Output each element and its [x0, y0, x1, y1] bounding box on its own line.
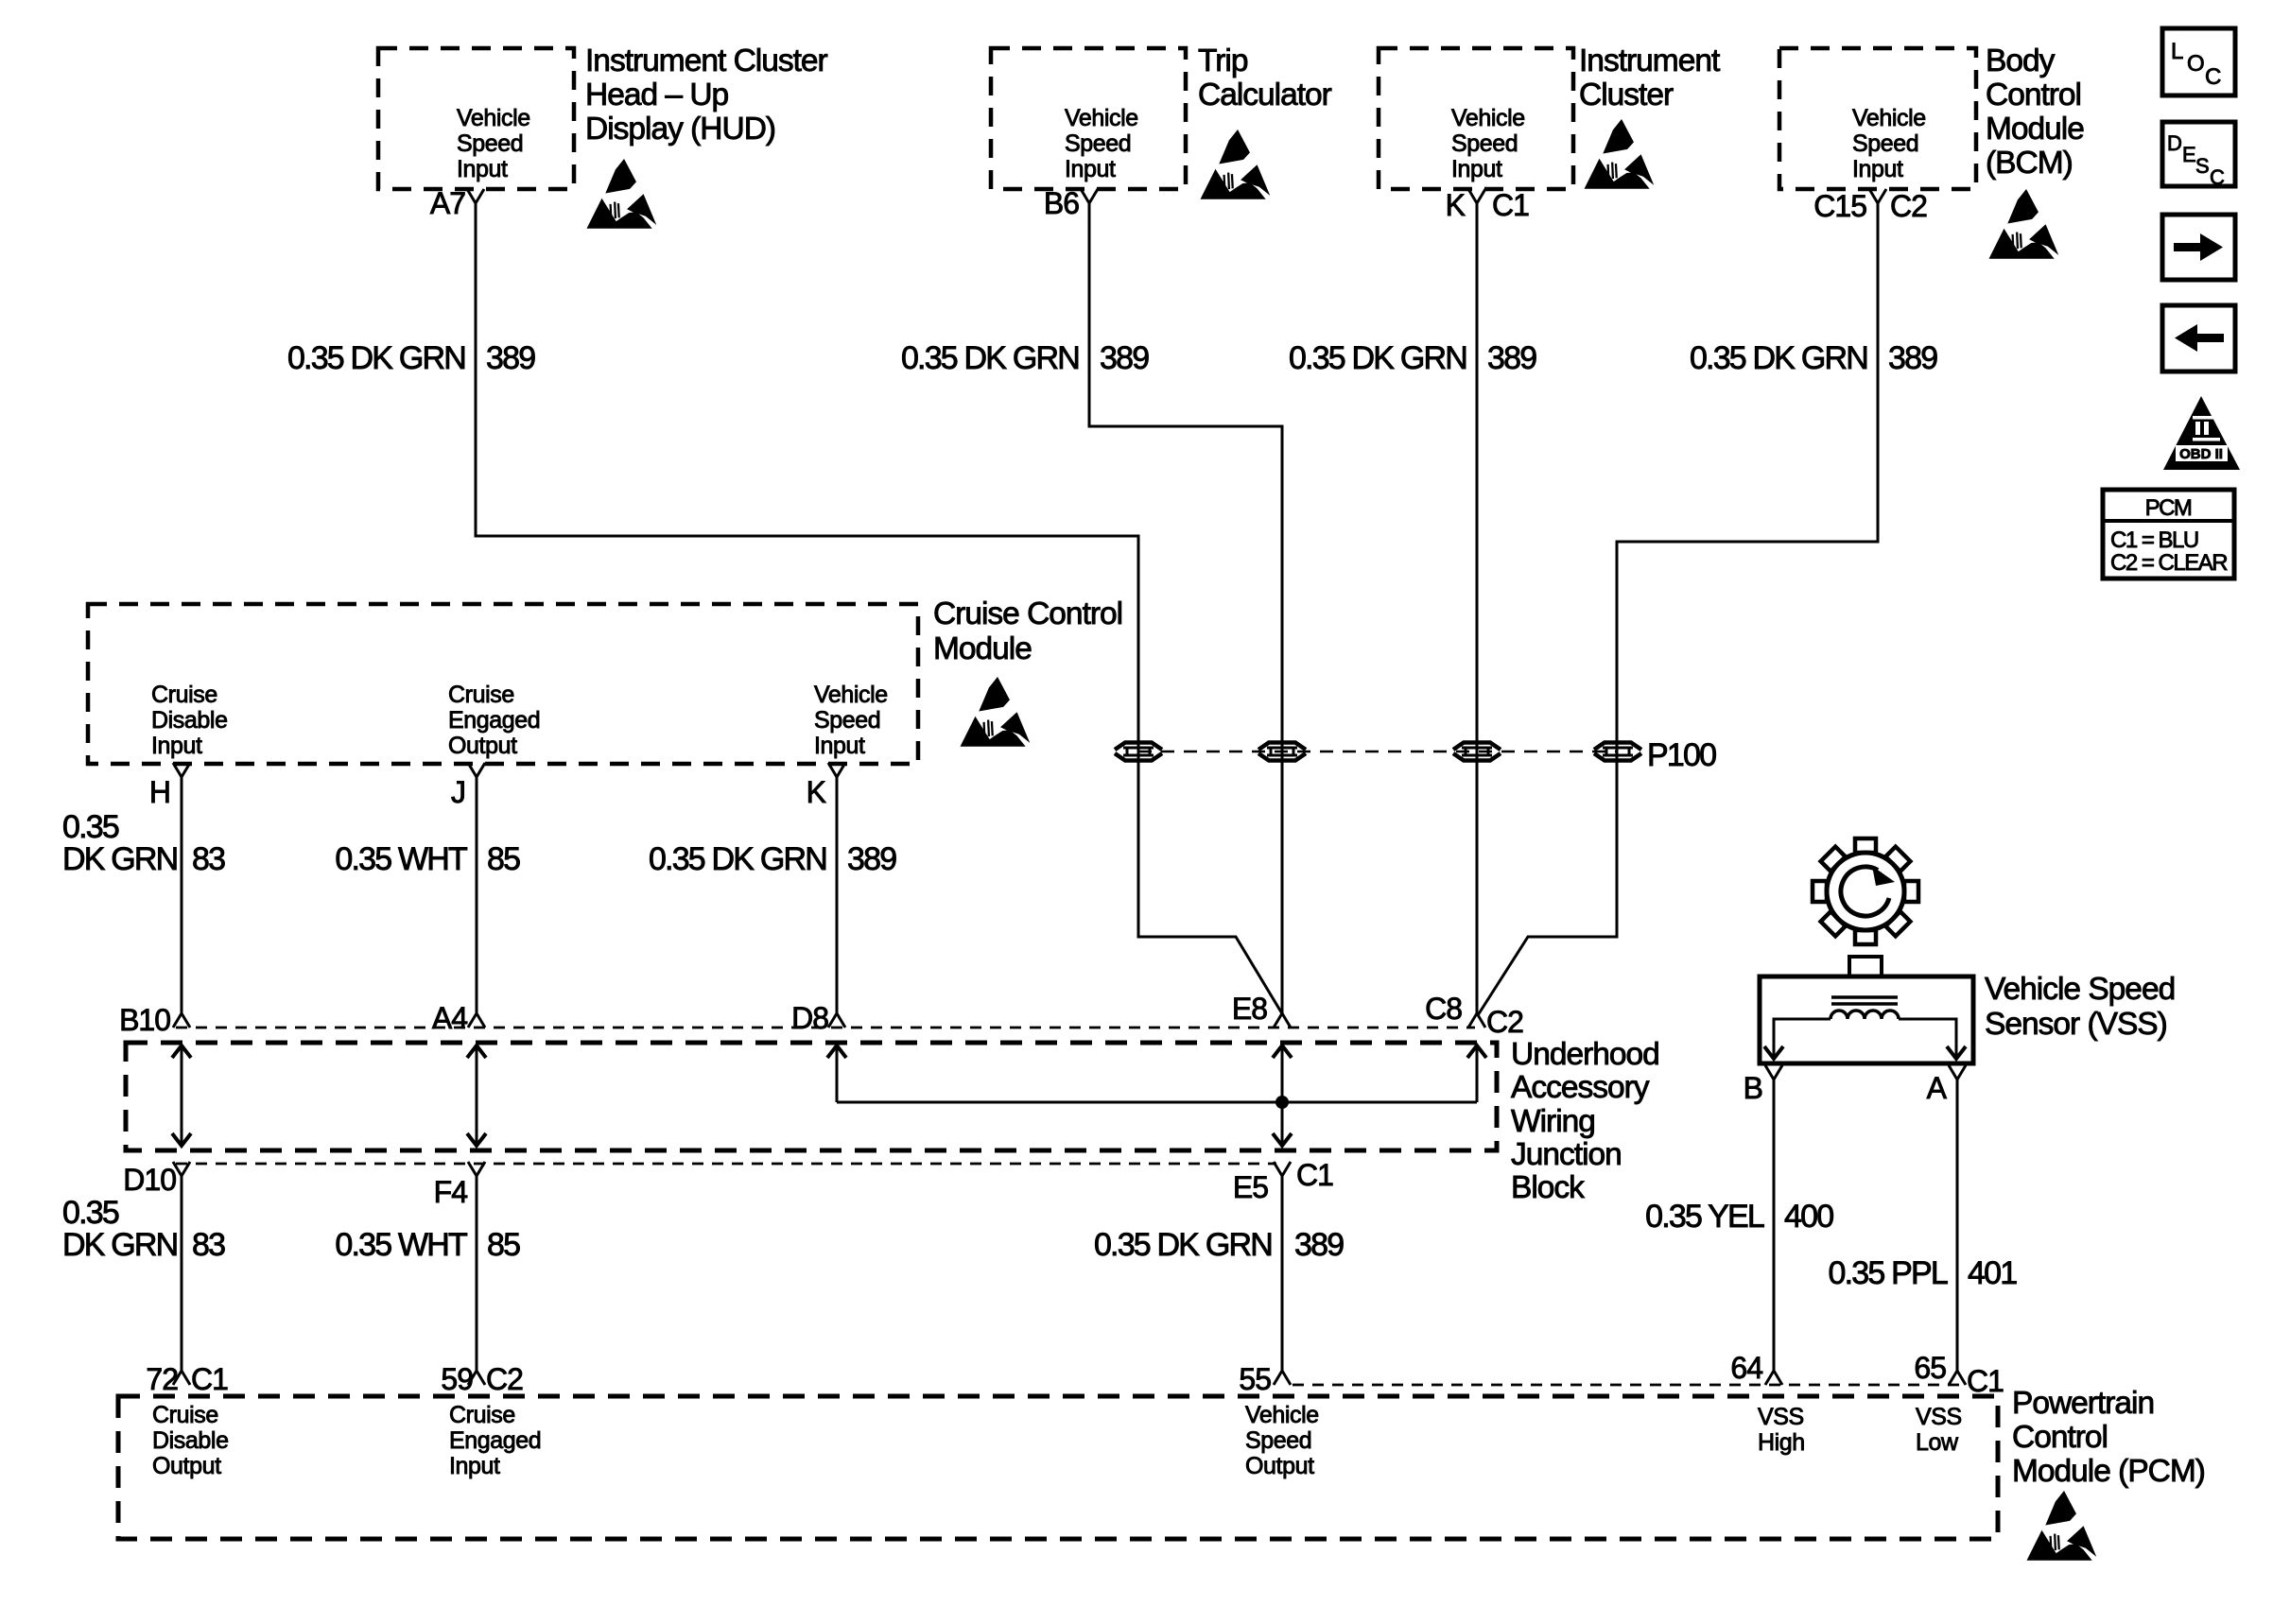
svg-text:0.35 YEL: 0.35 YEL — [1645, 1199, 1764, 1235]
junction block bottom connector row (dashed) — [176, 1163, 1276, 1166]
junction block internal path A4-F4 (double arrow) — [467, 1045, 486, 1058]
svg-text:Vehicle: Vehicle — [1451, 105, 1525, 131]
svg-text:C1: C1 — [1492, 188, 1529, 222]
svg-text:DK GRN: DK GRN — [62, 841, 177, 877]
svg-text:Control: Control — [2012, 1420, 2108, 1455]
wire: HUD A7 to junction E8 (0.35 DK GRN 389) — [476, 203, 1283, 1015]
svg-text:0.35: 0.35 — [62, 809, 119, 845]
junction node dot — [1275, 1096, 1289, 1109]
svg-text:Wiring: Wiring — [1511, 1104, 1595, 1139]
svg-text:83: 83 — [192, 841, 225, 877]
svg-text:P100: P100 — [1647, 737, 1716, 773]
svg-text:0.35 DK GRN: 0.35 DK GRN — [901, 340, 1079, 376]
svg-text:Powertrain: Powertrain — [2012, 1386, 2154, 1421]
junction block internal bus wire — [837, 1101, 1477, 1104]
svg-text:E5: E5 — [1233, 1170, 1268, 1204]
svg-text:0.35 PPL: 0.35 PPL — [1829, 1255, 1948, 1291]
label: Powertrain Control Module (PCM) — [2012, 1386, 2205, 1489]
svg-text:Input: Input — [449, 1453, 500, 1479]
svg-text:401: 401 — [1968, 1255, 2017, 1291]
legend icon: OBD II triangle — [2163, 396, 2240, 470]
junction block internal path B10-D10 (double arrow) — [172, 1045, 191, 1058]
svg-text:C8: C8 — [1425, 992, 1462, 1026]
svg-text:0.35 DK GRN: 0.35 DK GRN — [1289, 340, 1466, 376]
svg-text:VSS: VSS — [1916, 1404, 1962, 1430]
svg-text:Block: Block — [1511, 1170, 1585, 1205]
label: Vehicle Speed Sensor (VSS) — [1985, 972, 2175, 1042]
module box: Powertrain Control Module (PCM) — [118, 1396, 1998, 1539]
svg-text:389: 389 — [1888, 340, 1937, 376]
VSS internal leads — [1774, 1019, 1831, 1059]
svg-text:A: A — [1927, 1071, 1948, 1105]
module box: Body Control Module (BCM) — [1779, 48, 1976, 189]
svg-text:A4: A4 — [432, 1001, 467, 1035]
svg-text:B6: B6 — [1044, 186, 1079, 220]
VSS coil — [1831, 1011, 1899, 1019]
svg-text:389: 389 — [1100, 340, 1149, 376]
wire: E5 to PCM 55 (0.35 DK GRN 389) — [1281, 1176, 1284, 1373]
svg-text:0.35 DK GRN: 0.35 DK GRN — [649, 841, 826, 877]
svg-text:Display (HUD): Display (HUD) — [585, 112, 775, 147]
component: Underhood Accessory Wiring Junction Block — [126, 1043, 1497, 1150]
svg-text:Cruise Control: Cruise Control — [933, 596, 1122, 631]
legend icon: LOC box — [2162, 28, 2235, 95]
svg-text:PCM: PCM — [2145, 495, 2192, 521]
svg-text:E8: E8 — [1232, 992, 1267, 1026]
svg-text:Trip: Trip — [1198, 43, 1248, 78]
svg-text:Input: Input — [457, 156, 508, 182]
svg-text:0.35 WHT: 0.35 WHT — [335, 841, 467, 877]
svg-text:72: 72 — [146, 1362, 178, 1396]
junction block internal path D8 down to bus — [827, 1045, 846, 1058]
svg-text:65: 65 — [1914, 1351, 1946, 1385]
svg-text:83: 83 — [192, 1227, 225, 1263]
svg-text:High: High — [1758, 1429, 1805, 1456]
wire: F4 to PCM 59 (0.35 WHT 85) — [476, 1176, 478, 1373]
svg-text:Input: Input — [1852, 156, 1903, 182]
svg-text:C: C — [2210, 165, 2225, 189]
svg-text:Module: Module — [1986, 112, 2084, 147]
svg-text:C2 = CLEAR: C2 = CLEAR — [2110, 550, 2228, 576]
label: Underhood Accessory Wiring Junction Block — [1511, 1037, 1659, 1205]
svg-text:85: 85 — [487, 841, 520, 877]
svg-text:389: 389 — [1294, 1227, 1344, 1263]
label: Body Control Module (BCM) — [1986, 43, 2084, 181]
wire: Instrument Cluster K to junction C8 (0.35 DK GRN 389) — [1476, 203, 1479, 1015]
svg-text:Vehicle: Vehicle — [1852, 105, 1926, 131]
svg-text:Speed: Speed — [1852, 130, 1918, 157]
svg-text:Underhood: Underhood — [1511, 1037, 1659, 1072]
svg-text:Speed: Speed — [457, 130, 523, 157]
svg-text:Engaged: Engaged — [448, 707, 540, 734]
wire: CCM K to junction D8 (0.35 DK GRN 389) — [836, 777, 839, 1015]
svg-text:C2: C2 — [1486, 1005, 1523, 1039]
svg-text:Control: Control — [1986, 78, 2081, 112]
svg-text:Cruise: Cruise — [449, 1402, 515, 1428]
svg-text:Disable: Disable — [152, 1427, 229, 1454]
svg-text:0.35 DK GRN: 0.35 DK GRN — [1094, 1227, 1272, 1263]
ESD symbol (PCM) — [2027, 1491, 2097, 1561]
svg-text:0.35: 0.35 — [62, 1195, 119, 1231]
connector P100 at A7 wire — [1115, 743, 1162, 761]
svg-text:Vehicle: Vehicle — [814, 682, 888, 708]
svg-text:Cruise: Cruise — [151, 682, 217, 708]
legend: PCM connector color table — [2103, 490, 2234, 579]
svg-text:Input: Input — [151, 733, 202, 759]
PCM connector row (dashed) — [1293, 1384, 1964, 1387]
svg-text:K: K — [807, 775, 826, 809]
label: Instrument Cluster — [1579, 43, 1721, 112]
svg-text:C2: C2 — [486, 1362, 523, 1396]
svg-text:Instrument Cluster: Instrument Cluster — [585, 43, 828, 78]
ESD symbol (Trip Calculator) — [1201, 130, 1271, 199]
wire: CCM H to junction B10 (0.35 DK GRN 83) — [181, 777, 183, 1015]
ESD symbol (HUD) — [587, 159, 657, 229]
svg-text:Speed: Speed — [1451, 130, 1518, 157]
svg-text:389: 389 — [847, 841, 896, 877]
svg-text:Junction: Junction — [1511, 1137, 1622, 1172]
svg-text:Speed: Speed — [1245, 1427, 1311, 1454]
svg-text:Input: Input — [814, 733, 865, 759]
wire: BCM C15 to junction C8 (0.35 DK GRN 389) — [1478, 203, 1878, 1015]
svg-text:(BCM): (BCM) — [1986, 146, 2073, 181]
junction block internal path bus up to C8 — [1467, 1045, 1486, 1058]
svg-text:Accessory: Accessory — [1511, 1070, 1650, 1105]
ESD symbol (BCM) — [1989, 189, 2059, 259]
svg-text:400: 400 — [1784, 1199, 1833, 1235]
module box: Cruise Control Module — [88, 604, 918, 764]
svg-text:Calculator: Calculator — [1198, 78, 1332, 112]
svg-text:C1: C1 — [1967, 1364, 2004, 1398]
label: Cruise Control Module — [933, 596, 1122, 666]
svg-text:Input: Input — [1065, 156, 1116, 182]
svg-text:Module (PCM): Module (PCM) — [2012, 1454, 2205, 1489]
VSS core lines — [1831, 997, 1898, 1004]
svg-text:C15: C15 — [1813, 189, 1866, 223]
svg-text:Cruise: Cruise — [152, 1402, 218, 1428]
svg-text:0.35 DK GRN: 0.35 DK GRN — [287, 340, 465, 376]
legend icon: DESC box — [2162, 122, 2235, 189]
svg-text:59: 59 — [441, 1362, 473, 1396]
svg-text:55: 55 — [1239, 1362, 1271, 1396]
svg-text:VSS: VSS — [1758, 1404, 1804, 1430]
svg-text:OBD II: OBD II — [2179, 446, 2223, 462]
svg-text:F4: F4 — [434, 1175, 468, 1209]
module box: Instrument Cluster Head-Up Display (HUD) — [378, 48, 574, 189]
svg-text:Instrument: Instrument — [1579, 43, 1721, 78]
legend icon: right arrow box — [2162, 215, 2235, 280]
svg-text:0.35 WHT: 0.35 WHT — [335, 1227, 467, 1263]
legend icon: left arrow box — [2162, 305, 2235, 371]
label: Trip Calculator — [1198, 43, 1332, 112]
svg-text:D10: D10 — [123, 1163, 176, 1197]
svg-text:Body: Body — [1986, 43, 2056, 78]
svg-text:B10: B10 — [119, 1003, 170, 1037]
svg-text:Cluster: Cluster — [1579, 78, 1674, 112]
connector P100 at IC wire — [1453, 743, 1501, 761]
svg-text:0.35 DK GRN: 0.35 DK GRN — [1690, 340, 1867, 376]
svg-text:E: E — [2182, 143, 2196, 166]
svg-text:O: O — [2187, 51, 2204, 77]
VSS reluctor gear — [1813, 838, 1918, 944]
svg-text:J: J — [451, 775, 465, 809]
svg-text:Low: Low — [1916, 1429, 1959, 1456]
svg-text:A7: A7 — [430, 186, 465, 220]
junction block internal path E8-E5 (double arrow) — [1273, 1045, 1292, 1058]
svg-text:Sensor (VSS): Sensor (VSS) — [1985, 1007, 2167, 1042]
svg-text:DK GRN: DK GRN — [62, 1227, 177, 1263]
connector P100 at BCM wire — [1594, 743, 1641, 761]
junction block top connector row (dashed) — [176, 1027, 1475, 1029]
svg-text:Speed: Speed — [1065, 130, 1131, 157]
svg-text:64: 64 — [1730, 1351, 1762, 1385]
wire: VSS B to PCM 64 (0.35 YEL 400) — [1773, 1080, 1776, 1373]
wire: D10 to PCM 72 (0.35 DK GRN 83) — [181, 1176, 183, 1373]
svg-text:Output: Output — [152, 1453, 221, 1479]
svg-text:Engaged: Engaged — [449, 1427, 541, 1454]
VSS body box — [1760, 976, 1973, 1063]
svg-text:L: L — [2171, 39, 2183, 64]
svg-text:Head – Up: Head – Up — [585, 78, 729, 112]
svg-text:C1: C1 — [1296, 1158, 1333, 1192]
ESD symbol (Instrument Cluster) — [1585, 119, 1655, 189]
svg-text:Speed: Speed — [814, 707, 880, 734]
svg-text:Vehicle: Vehicle — [457, 105, 530, 131]
wire: VSS A to PCM 65 (0.35 PPL 401) — [1956, 1080, 1959, 1373]
svg-text:389: 389 — [1487, 340, 1536, 376]
module box: Instrument Cluster — [1379, 48, 1573, 189]
svg-text:C: C — [2205, 64, 2221, 90]
svg-text:K: K — [1446, 188, 1466, 222]
svg-text:C1: C1 — [191, 1362, 228, 1396]
svg-text:Vehicle Speed: Vehicle Speed — [1985, 972, 2175, 1007]
svg-text:85: 85 — [487, 1227, 520, 1263]
label: Instrument Cluster Head-Up Display (HUD) — [585, 43, 828, 147]
svg-text:389: 389 — [486, 340, 535, 376]
svg-text:C2: C2 — [1890, 189, 1927, 223]
svg-text:S: S — [2195, 154, 2210, 178]
svg-text:Vehicle: Vehicle — [1065, 105, 1138, 131]
svg-text:Disable: Disable — [151, 707, 228, 734]
ESD symbol (Cruise Control Module) — [961, 677, 1031, 747]
svg-text:Output: Output — [448, 733, 517, 759]
svg-text:Vehicle: Vehicle — [1245, 1402, 1319, 1428]
svg-text:Module: Module — [933, 631, 1032, 666]
inline connector P100 dashed line — [1138, 751, 1618, 753]
svg-text:Cruise: Cruise — [448, 682, 514, 708]
svg-text:Input: Input — [1451, 156, 1502, 182]
VSS shaft — [1849, 957, 1882, 976]
wire: Trip Calculator B6 to junction E8 (0.35 DK GRN 389) — [1089, 203, 1282, 1015]
svg-text:D8: D8 — [791, 1001, 828, 1035]
connector P100 at B6 wire — [1258, 743, 1306, 761]
svg-text:C1 = BLU: C1 = BLU — [2110, 527, 2198, 553]
svg-text:D: D — [2167, 131, 2182, 155]
svg-text:Output: Output — [1245, 1453, 1314, 1479]
svg-text:B: B — [1744, 1071, 1762, 1105]
svg-text:H: H — [149, 775, 170, 809]
wire: CCM J to junction A4 (0.35 WHT 85) — [476, 777, 478, 1015]
module box: Trip Calculator — [991, 48, 1186, 189]
